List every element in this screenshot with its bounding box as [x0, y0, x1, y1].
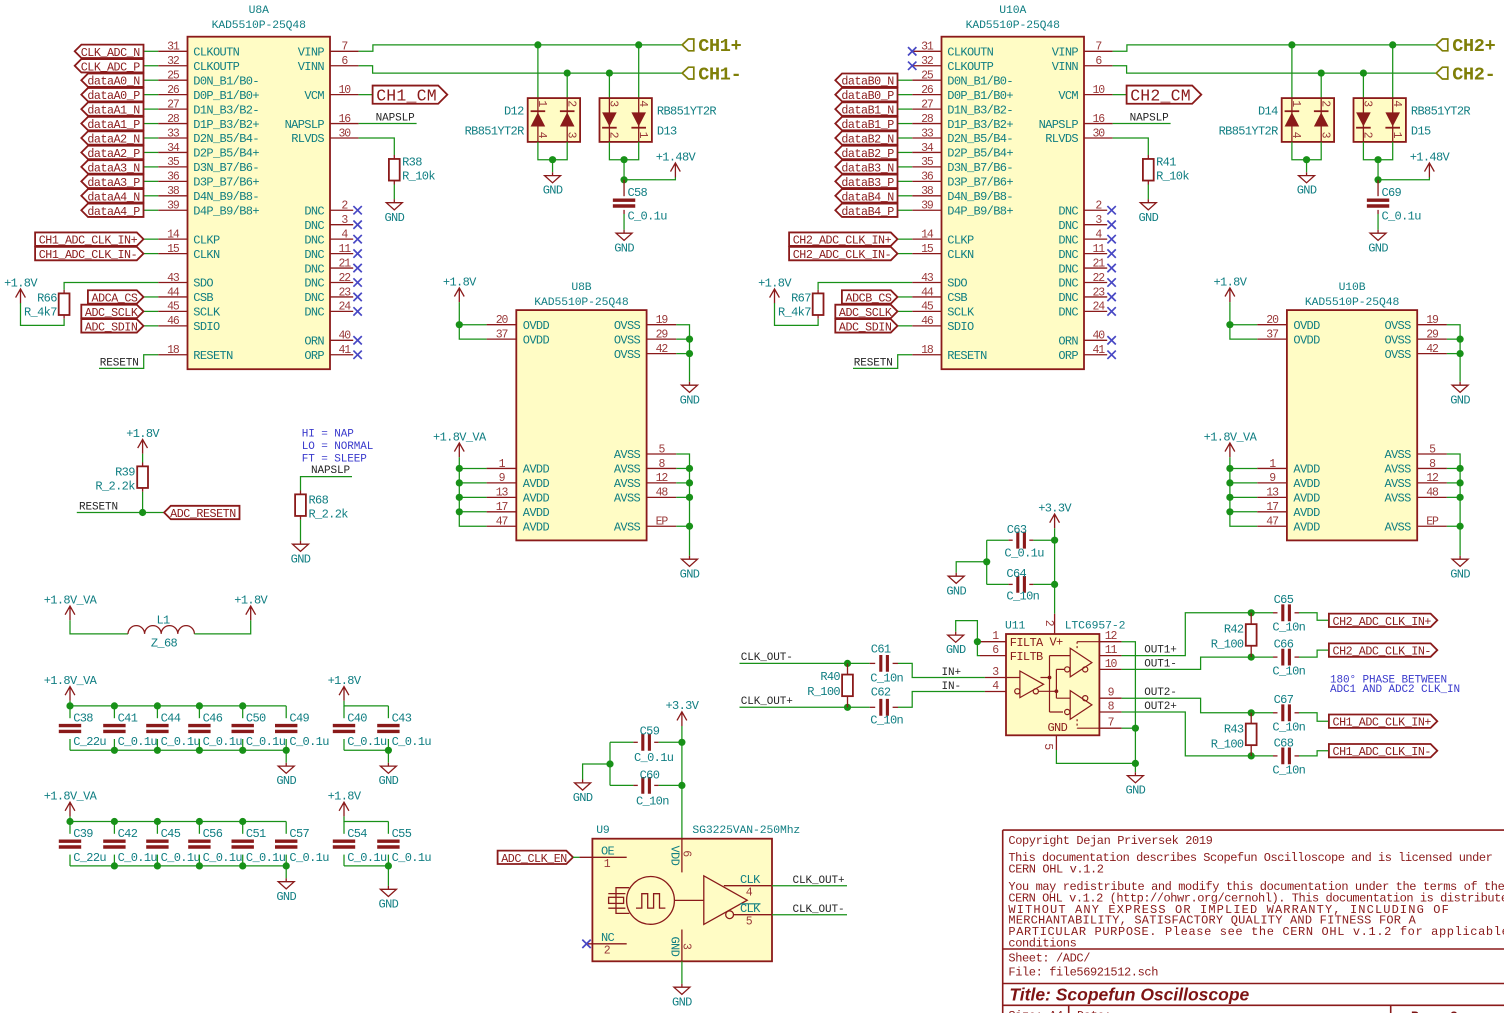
junction [385, 747, 392, 754]
power +1.8V_VA for cap bank [65, 802, 75, 816]
svg-text:11: 11 [338, 243, 351, 256]
svg-text:D4P_B9/B8+: D4P_B9/B8+ [193, 204, 259, 218]
pin 37 OVDD of U8B [487, 328, 550, 347]
svg-text:12: 12 [1105, 630, 1118, 643]
svg-text:18: 18 [921, 344, 934, 357]
svg-text:D0P_B1/B0+: D0P_B1/B0+ [947, 89, 1013, 103]
svg-text:GND: GND [276, 774, 296, 788]
svg-text:D14: D14 [1258, 104, 1278, 118]
global label CH1_ADC_CLK_IN- [1329, 744, 1437, 757]
wire AVSS pins to GND [1447, 454, 1460, 556]
svg-text:C40: C40 [347, 711, 367, 725]
svg-text:7: 7 [341, 41, 347, 54]
global label dataA4_P [81, 204, 143, 217]
text note HI/LO/FT modes [302, 429, 374, 466]
global label CH2_ADC_CLK_IN- [1329, 643, 1437, 656]
svg-text:dataB3_P: dataB3_P [841, 176, 894, 190]
svg-text:R_2.2k: R_2.2k [95, 479, 135, 493]
svg-text:26: 26 [167, 84, 180, 97]
svg-text:SG3225VAN-250Mhz: SG3225VAN-250Mhz [692, 825, 800, 837]
svg-text:OUT2-: OUT2- [1144, 687, 1177, 699]
pin 21 DNC of U10A [1058, 257, 1115, 276]
pin 30 RLVDS of U8A [291, 127, 358, 146]
svg-text:R_4k7: R_4k7 [24, 306, 57, 320]
global label dataB4_P [835, 204, 897, 217]
svg-text:CLK_OUT-: CLK_OUT- [793, 904, 845, 916]
svg-text:33: 33 [921, 127, 934, 140]
pin 8 OUT2+ of U11 [1099, 700, 1121, 713]
svg-text:CLKOUTN: CLKOUTN [947, 46, 993, 60]
pin 29 OVSS of U10B [1384, 328, 1446, 347]
svg-text:R_100: R_100 [1211, 637, 1244, 651]
svg-text:17: 17 [496, 501, 508, 514]
pin 44 CSB of U8A [158, 286, 213, 305]
svg-text:R_2.2k: R_2.2k [309, 507, 349, 521]
diode D14 RB851YT2R [1219, 98, 1334, 142]
svg-text:AVDD: AVDD [1293, 477, 1320, 491]
svg-text:U8A: U8A [249, 5, 269, 17]
wire pin to label dataB3_N [898, 166, 913, 168]
svg-text:C39: C39 [73, 827, 93, 841]
global label dataB1_N [835, 102, 897, 115]
svg-text:C42: C42 [118, 827, 138, 841]
svg-text:ADC_SDIN: ADC_SDIN [85, 320, 138, 334]
svg-text:U11: U11 [1005, 621, 1025, 633]
svg-text:R_4k7: R_4k7 [778, 306, 811, 320]
junction [196, 702, 203, 709]
junction [844, 660, 851, 667]
pin 7 GND of U11 [1048, 717, 1122, 736]
wire CH1- to D12 pin2 [566, 73, 568, 98]
svg-text:D4N_B9/B8-: D4N_B9/B8- [193, 190, 259, 204]
pin 3 DNC of U8A [304, 214, 361, 233]
svg-text:Size: A4: Size: A4 [1008, 1009, 1063, 1013]
diode D13 RB851YT2R [600, 98, 717, 142]
wire VCM to CH2_CM [1113, 94, 1127, 96]
capacitor C57 C_0.1u [275, 822, 329, 866]
svg-text:File: file56921512.sch: File: file56921512.sch [1008, 966, 1158, 980]
power +1.8V_VA for U10B AVDD [1225, 443, 1235, 457]
svg-text:R41: R41 [1156, 155, 1176, 169]
no-connect X on U10A CLKOUT pin [908, 47, 916, 55]
svg-text:15: 15 [921, 243, 934, 256]
ground below D12 [545, 172, 561, 183]
ground below R68 [293, 541, 309, 552]
svg-text:C_0.1u: C_0.1u [289, 851, 329, 865]
svg-text:dataA3_P: dataA3_P [87, 176, 140, 190]
svg-text:CH2_ADC_CLK_IN-: CH2_ADC_CLK_IN- [793, 248, 891, 262]
global label ADCB_CS [842, 290, 898, 303]
wire CLK_OUT+ to C62 [740, 706, 870, 708]
svg-text:OVDD: OVDD [1293, 319, 1320, 333]
inductor L1 Z_68 [128, 613, 194, 650]
no-connect X [1107, 351, 1115, 359]
svg-text:CH1-: CH1- [698, 64, 741, 85]
no-connect X [1107, 221, 1115, 229]
no-connect X [353, 351, 361, 359]
svg-text:18: 18 [167, 344, 180, 357]
wire CH2+ to D15 pin4 [1392, 45, 1394, 98]
svg-text:CLK_OUT+: CLK_OUT+ [741, 696, 793, 708]
svg-text:dataB0_P: dataB0_P [841, 89, 894, 103]
svg-text:AVDD: AVDD [523, 463, 550, 477]
power +1.8V for cap bank [339, 802, 349, 816]
wire AVSS pins to GND [676, 454, 689, 556]
global label dataB1_P [835, 117, 897, 130]
junction [283, 862, 290, 869]
pin 23 DNC of U10A [1058, 286, 1115, 305]
svg-text:CLKOUTN: CLKOUTN [193, 46, 239, 60]
svg-text:AVDD: AVDD [1293, 492, 1320, 506]
junction [686, 336, 693, 343]
global label ADC_CLK_EN [498, 851, 573, 864]
svg-text:C_10n: C_10n [636, 794, 669, 808]
power +3.3V for U11 [1050, 514, 1060, 528]
svg-text:CLKP: CLKP [193, 233, 220, 247]
svg-text:C50: C50 [246, 711, 266, 725]
wire pin to label ADC_SCLK [898, 310, 913, 312]
pin 38 D4N_B9/B8- of U8A [158, 185, 259, 204]
pin 18 RESETN of U10A [912, 344, 987, 363]
wire pin5 to ground rail [1056, 750, 1135, 763]
wire V+out and GND pins to ground rail [1122, 642, 1136, 764]
svg-text:conditions: conditions [1008, 936, 1076, 950]
wire C65 to CH2_ADC_CLK_IN+ [1299, 613, 1329, 621]
svg-text:GND: GND [1138, 211, 1158, 225]
svg-text:CH1_ADC_CLK_IN-: CH1_ADC_CLK_IN- [1333, 745, 1431, 759]
pin 8 AVSS of U8B [614, 458, 676, 477]
svg-text:R68: R68 [309, 493, 329, 507]
junction [154, 747, 161, 754]
svg-text:30: 30 [338, 127, 351, 140]
wire L1 to +1.8V [194, 620, 250, 634]
svg-text:C_0.1u: C_0.1u [246, 851, 286, 865]
svg-text:GND: GND [379, 897, 399, 911]
wire R67 to SDO [818, 283, 912, 290]
svg-text:47: 47 [1266, 516, 1278, 529]
svg-text:OVDD: OVDD [523, 319, 550, 333]
svg-text:17: 17 [1266, 501, 1278, 514]
svg-text:GND: GND [680, 393, 700, 407]
wire bottom bus [70, 865, 286, 867]
svg-text:48: 48 [1426, 487, 1439, 500]
pin 35 D3N_B7/B6- of U8A [158, 156, 259, 175]
svg-text:dataA0_P: dataA0_P [87, 89, 140, 103]
wire pin to label dataB4_N [898, 195, 913, 197]
svg-text:31: 31 [167, 41, 180, 54]
junction [196, 818, 203, 825]
capacitor C69 C_0.1u [1367, 180, 1421, 224]
wire CH1- to D13 pin3 [608, 73, 610, 98]
svg-text:DNC: DNC [304, 291, 324, 305]
wire C68 to CH1_ADC_CLK_IN- [1299, 751, 1329, 756]
wire VCM to CH1_CM [359, 94, 373, 96]
svg-text:CLKN: CLKN [947, 248, 974, 262]
svg-text:EP: EP [1426, 516, 1439, 529]
svg-text:35: 35 [167, 156, 180, 169]
junction [154, 862, 161, 869]
wire D14 to GND [1292, 142, 1321, 160]
svg-text:VINN: VINN [1052, 60, 1079, 74]
pin 30 RLVDS of U10A [1045, 127, 1112, 146]
svg-text:ADC_SDIN: ADC_SDIN [839, 320, 892, 334]
svg-text:C_10n: C_10n [1272, 720, 1305, 734]
svg-text:34: 34 [167, 142, 180, 155]
svg-text:AVSS: AVSS [1384, 448, 1411, 462]
wire +1.8V to OVDD pins [459, 302, 486, 339]
global label dataB3_N [835, 160, 897, 173]
wire CH2- to D15 pin3 [1362, 73, 1364, 98]
svg-text:V+: V+ [1050, 635, 1064, 649]
pin 34 D2P_B5/B4+ of U10A [912, 142, 1013, 161]
junction [456, 479, 463, 486]
junction [239, 747, 246, 754]
svg-text:dataA0_N: dataA0_N [87, 75, 140, 89]
junction [620, 156, 627, 163]
svg-text:GND: GND [573, 791, 593, 805]
pin 43 SDO of U10A [912, 272, 967, 291]
svg-text:23: 23 [338, 286, 351, 299]
svg-text:DNC: DNC [1058, 277, 1078, 291]
pin 33 D2N_B5/B4- of U8A [158, 127, 259, 146]
op-amp U8B KAD5510P-25Q48 power unit body [516, 282, 646, 540]
svg-text:42: 42 [656, 343, 669, 356]
wire pin to label CH2_ADC_CLK_IN+ [898, 238, 913, 240]
svg-text:GND: GND [543, 184, 563, 198]
pin 1 OE of U9 [579, 844, 626, 871]
junction [1360, 70, 1367, 77]
svg-text:DNC: DNC [1058, 291, 1078, 305]
pin 4 DNC of U10A [1058, 228, 1115, 247]
junction [139, 509, 146, 516]
pin 16 NAPSLP of U8A [285, 113, 359, 132]
wire pin to label dataA4_N [144, 195, 159, 197]
pin 4 IN- of U11 [985, 680, 1006, 693]
capacitor C64 C_10n [987, 567, 1055, 604]
pin 27 D1N_B3/B2- of U8A [158, 98, 259, 117]
wire pin to label dataB2_N [898, 137, 913, 139]
svg-text:AVDD: AVDD [523, 477, 550, 491]
pin 48 AVSS of U10B [1384, 487, 1446, 506]
svg-text:FILTB: FILTB [1010, 650, 1043, 664]
svg-text:KAD5510P-25Q48: KAD5510P-25Q48 [1305, 297, 1400, 309]
capacitor C45 C_0.1u [146, 822, 200, 866]
wire pin to label ADC_SDIN [898, 325, 913, 327]
junction [66, 702, 73, 709]
capacitor C62 C_10n [870, 686, 904, 728]
junction [983, 558, 990, 565]
wire C67 to CH1_ADC_CLK_IN+ [1299, 713, 1329, 721]
svg-text:VINN: VINN [298, 60, 325, 74]
svg-text:Title: Scopefun Oscilloscope: Title: Scopefun Oscilloscope [1009, 985, 1249, 1005]
svg-text:RESETN: RESETN [193, 349, 233, 363]
svg-text:44: 44 [921, 286, 934, 299]
text bottom row size/date/rev [1008, 1009, 1458, 1013]
no-connect X [353, 307, 361, 315]
pin 1 AVDD of U10B [1257, 458, 1320, 477]
no-connect X [353, 249, 361, 257]
pin 28 D1P_B3/B2+ of U8A [158, 113, 259, 132]
junction [111, 862, 118, 869]
wire pin to label dataB0_N [898, 79, 913, 81]
svg-text:25: 25 [921, 70, 934, 83]
pin 10 VCM of U8A [304, 84, 358, 103]
wire NAPSLP to R68 [301, 477, 353, 491]
svg-text:VINP: VINP [1052, 46, 1079, 60]
svg-text:C_0.1u: C_0.1u [203, 851, 243, 865]
svg-text:C44: C44 [161, 711, 181, 725]
svg-text:37: 37 [496, 328, 508, 341]
svg-text:HI = NAP: HI = NAP [302, 429, 355, 441]
svg-text:32: 32 [921, 55, 934, 68]
svg-text:C_10n: C_10n [1272, 665, 1305, 679]
wire RLVDS to R38 [359, 138, 395, 155]
pin 9 AVDD of U10B [1257, 472, 1320, 491]
svg-text:+1.8V_VA: +1.8V_VA [44, 790, 98, 804]
wire power to top bus [70, 701, 286, 706]
svg-text:13: 13 [496, 487, 509, 500]
capacitor C66 C_10n [1272, 638, 1305, 679]
junction [1248, 654, 1255, 661]
wire OUT1- to C66 row [1122, 657, 1273, 669]
pin 2 V+ of U11 [1042, 614, 1063, 650]
junction [154, 818, 161, 825]
svg-text:Rev: 2: Rev: 2 [1411, 1009, 1458, 1013]
pin 41 ORP of U10A [1058, 344, 1115, 363]
pin 20 OVDD of U10B [1257, 314, 1320, 333]
wire pin to label dataA1_N [144, 108, 159, 110]
svg-text:NC: NC [601, 931, 615, 945]
svg-text:41: 41 [338, 344, 351, 357]
junction [1051, 581, 1058, 588]
pin 12 AVSS of U8B [614, 472, 676, 491]
global label ADC_SDIN [835, 319, 897, 332]
ground of cap bank [278, 763, 294, 774]
svg-text:AVSS: AVSS [614, 520, 641, 534]
svg-text:D1P_B3/B2+: D1P_B3/B2+ [947, 118, 1013, 132]
svg-text:C51: C51 [246, 827, 266, 841]
pin 26 D0P_B1/B0+ of U8A [158, 84, 259, 103]
svg-text:C_0.1u: C_0.1u [203, 735, 243, 749]
svg-text:LTC6957-2: LTC6957-2 [1065, 621, 1126, 633]
global label dataB0_N [835, 74, 897, 87]
pin 6 FILTB of U11 [980, 644, 1043, 664]
svg-text:RB851YT2R: RB851YT2R [465, 124, 524, 138]
svg-text:GND: GND [379, 774, 399, 788]
junction [1226, 508, 1233, 515]
svg-text:SCLK: SCLK [947, 306, 975, 320]
junction [154, 702, 161, 709]
svg-text:DNC: DNC [1058, 204, 1078, 218]
junction [1248, 609, 1255, 616]
svg-text:+1.8V_VA: +1.8V_VA [44, 594, 98, 608]
junction [1457, 479, 1464, 486]
svg-text:CH1_ADC_CLK_IN-: CH1_ADC_CLK_IN- [39, 248, 137, 262]
svg-text:40: 40 [338, 330, 351, 343]
capacitor C61 C_10n [870, 643, 904, 686]
svg-text:C66: C66 [1274, 638, 1294, 652]
svg-text:D3P_B7/B6+: D3P_B7/B6+ [947, 176, 1013, 190]
svg-text:GND: GND [946, 643, 966, 657]
svg-text:C_10n: C_10n [870, 672, 903, 686]
junction [111, 747, 118, 754]
svg-text:C_10n: C_10n [1272, 620, 1305, 634]
svg-text:+1.8V: +1.8V [4, 276, 38, 290]
wire C62 to IN- [898, 692, 985, 708]
svg-text:5: 5 [1041, 743, 1054, 750]
wire VINN to CH2- [1113, 66, 1437, 73]
wire pin to label dataB1_P [898, 123, 913, 125]
ground for U10B OVSS [1452, 382, 1468, 393]
pin 46 SDIO of U8A [158, 315, 220, 334]
svg-text:+1.8V: +1.8V [1213, 275, 1247, 289]
svg-text:CH2+: CH2+ [1452, 36, 1495, 57]
ground left of C59/C60 [575, 780, 591, 791]
wire CH2+ to D14 pin1 [1291, 45, 1293, 98]
junction [534, 41, 541, 48]
junction [1389, 41, 1396, 48]
junction [678, 782, 685, 789]
pin 6 VDD of U9 [668, 839, 693, 873]
svg-text:24: 24 [1092, 301, 1105, 314]
wire down to cap node [623, 160, 625, 180]
svg-text:43: 43 [921, 272, 934, 285]
svg-text:35: 35 [921, 156, 934, 169]
junction [564, 70, 571, 77]
svg-text:dataA1_P: dataA1_P [87, 118, 140, 132]
resistor R67 R_4k7 [778, 290, 824, 320]
ground of cap bank [380, 763, 396, 774]
svg-text:OVSS: OVSS [1384, 348, 1411, 362]
power +1.8V for cap bank [339, 687, 349, 701]
no-connect X [1107, 235, 1115, 243]
pin 16 NAPSLP of U10A [1039, 113, 1113, 132]
svg-text:OE: OE [601, 844, 615, 858]
svg-text:C56: C56 [203, 827, 223, 841]
junction [678, 739, 685, 746]
svg-text:U9: U9 [596, 825, 610, 837]
no-connect X [353, 221, 361, 229]
wire R66 to SDO [64, 283, 158, 290]
pin 47 AVDD of U10B [1257, 516, 1320, 535]
svg-text:RLVDS: RLVDS [1045, 132, 1078, 146]
power +1.8V for R66 [16, 289, 26, 303]
pin 10 OUT1- of U11 [1099, 658, 1121, 671]
wire CLK to CLK_OUT+ [772, 885, 847, 887]
no-connect X [353, 278, 361, 286]
svg-text:C_0.1u: C_0.1u [627, 210, 667, 224]
pin 37 OVDD of U10B [1257, 328, 1320, 347]
pin 3 IN+ of U11 [985, 666, 1006, 679]
power +1.48V [1425, 163, 1435, 177]
capacitor C68 C_10n [1272, 736, 1305, 777]
pin 15 CLKN of U8A [158, 243, 220, 262]
no-connect X [353, 235, 361, 243]
wire power to top bus [344, 701, 388, 706]
svg-text:OVDD: OVDD [523, 333, 550, 347]
global label dataB3_P [835, 175, 897, 188]
svg-text:RESETN: RESETN [100, 358, 139, 370]
wire pin to label CH1_ADC_CLK_IN+ [144, 238, 159, 240]
wire OUT2+ to C68 row [1122, 712, 1273, 756]
junction [1248, 709, 1255, 716]
svg-text:C58: C58 [627, 186, 647, 200]
no-connect X [353, 336, 361, 344]
svg-text:DNC: DNC [1058, 219, 1078, 233]
svg-text:GND: GND [1368, 241, 1388, 255]
svg-text:C_0.1u: C_0.1u [347, 735, 387, 749]
svg-text:U10A: U10A [999, 5, 1026, 17]
